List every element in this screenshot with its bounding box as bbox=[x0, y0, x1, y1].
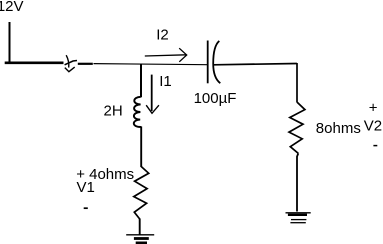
svg-text:12V: 12V bbox=[0, 0, 24, 15]
capacitor C 100uF: right curved plate bbox=[213, 41, 220, 83]
svg-text:I1: I1 bbox=[159, 73, 172, 90]
ground (left) bbox=[126, 234, 154, 236]
wire: resistor to ground (left) bbox=[139, 219, 141, 235]
label minus (right) bbox=[373, 145, 377, 147]
switch blade bbox=[65, 61, 77, 65]
wire: resistor to ground (right) bbox=[297, 153, 298, 211]
wire: inductor to resistor bbox=[140, 127, 142, 168]
svg-text:V1: V1 bbox=[77, 179, 95, 196]
ground (right) bbox=[286, 212, 311, 214]
resistor R 4ohms (zigzag) bbox=[134, 167, 149, 220]
label minus (left) bbox=[84, 207, 88, 209]
current arrow I1 bbox=[151, 75, 153, 111]
current arrow I2 bbox=[145, 55, 186, 56]
svg-text:100µF: 100µF bbox=[194, 90, 237, 107]
wire: segment right of switch bbox=[78, 63, 93, 65]
wire: top-left horizontal thick segment bbox=[5, 61, 64, 64]
wire: thin horizontal to capacitor bbox=[94, 64, 208, 65]
svg-text:2H: 2H bbox=[104, 103, 123, 120]
wire: capacitor to top-right corner bbox=[214, 64, 297, 65]
wire: middle branch vertical bbox=[140, 64, 142, 98]
svg-text:+: + bbox=[369, 99, 378, 116]
svg-text:8ohms: 8ohms bbox=[316, 120, 361, 137]
capacitor C 100uF: left plate bbox=[207, 41, 209, 84]
svg-text:I2: I2 bbox=[156, 27, 169, 44]
inductor L 2H (four loops) bbox=[134, 97, 142, 127]
switch actuation arrow (curved, pointing down) bbox=[66, 55, 69, 67]
wire: 12V source vertical lead bbox=[9, 22, 11, 64]
resistor R 8ohms (zigzag) bbox=[289, 102, 305, 153]
wire: right vertical drop to resistor bbox=[296, 63, 298, 103]
svg-text:V2: V2 bbox=[364, 118, 382, 135]
